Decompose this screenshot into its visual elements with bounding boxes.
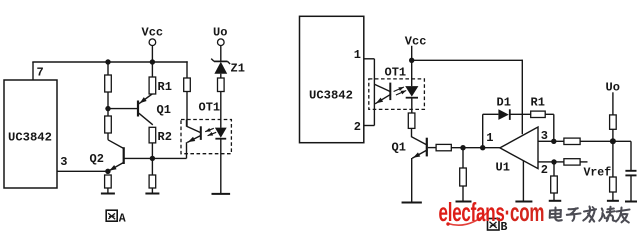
node: feedback branch 2 <box>480 145 485 150</box>
diode D1 <box>498 109 509 120</box>
label D1 <box>497 96 511 110</box>
wire: feedback top left <box>483 113 499 115</box>
capacitor C1 (unlabeled) <box>625 171 636 202</box>
OT1 right phototransistor <box>374 83 391 104</box>
wire: R1 top <box>151 62 153 77</box>
resistor left chain upper (unlabeled) <box>105 75 112 92</box>
wire: D1 to R1 <box>510 113 531 115</box>
ground under capacitor <box>625 201 637 203</box>
wire: to ground <box>612 192 614 201</box>
svg-text:UC3842: UC3842 <box>309 88 353 102</box>
zener Z1 <box>211 59 230 78</box>
wire: pin2 resistor to Vref end <box>580 161 587 163</box>
pin 2 stub <box>364 125 375 127</box>
resistor top-right branch (unlabeled) <box>184 78 191 92</box>
wire: pin2 node to resistor <box>554 161 564 163</box>
wire: vertical pin1-pin2 connector <box>373 59 375 126</box>
pin 3 stub right <box>538 140 554 142</box>
op-amp U1 triangle <box>500 127 538 169</box>
node: Uo junction <box>610 138 616 144</box>
resistor under OT1 LED (unlabeled) <box>408 113 415 128</box>
resistor R1 <box>149 77 156 94</box>
wire: feedback riser <box>482 114 484 147</box>
svg-text:OT1: OT1 <box>385 66 407 80</box>
node: pin3 junction <box>551 139 556 144</box>
ground under R chain <box>145 193 159 195</box>
label U1 <box>496 161 510 175</box>
wire: Vcc drop to op-amp V+ <box>521 60 523 135</box>
wire: rail corner down right branch <box>186 61 188 78</box>
watermark char 烧 <box>599 207 615 221</box>
wire: R2 bottom to node <box>151 143 153 175</box>
label R1 <box>158 80 172 94</box>
resistor under node1 (unlabeled) <box>460 168 467 186</box>
svg-text:7: 7 <box>37 66 44 80</box>
OT1 right LED <box>405 60 418 113</box>
resistor under Q2 emitter (unlabeled) <box>105 175 112 188</box>
svg-text:Q1: Q1 <box>392 141 406 155</box>
Uo terminal right <box>606 81 620 115</box>
ground under Q1 emitter <box>402 202 422 204</box>
wire: left chain middle <box>107 92 109 116</box>
resistor left chain lower (unlabeled) <box>105 116 112 133</box>
resistor under pin2 node (unlabeled) <box>551 176 558 193</box>
op-amp pin 1 label <box>486 131 493 145</box>
node: Vcc junction <box>409 58 414 63</box>
wire: right branch to OT1 <box>186 92 188 127</box>
ground under op-amp <box>515 201 532 203</box>
wire: left chain top <box>107 62 109 75</box>
Uo terminal left <box>213 26 227 62</box>
wire: to ground <box>107 188 109 194</box>
svg-text:Vref: Vref <box>584 167 612 180</box>
transistor Q1 right (faces left) <box>412 137 428 203</box>
pin 3 label <box>60 155 67 169</box>
watermark char 子 <box>567 208 581 221</box>
label Vref <box>584 167 612 180</box>
node: feedback branch 1 <box>460 145 465 150</box>
pin 7 stub wire <box>32 62 34 80</box>
watermark elecfans.com <box>439 197 545 226</box>
wire: OT1 emitter to Q2 base node <box>152 157 186 159</box>
label R2 <box>158 130 172 144</box>
svg-text:2: 2 <box>354 120 361 134</box>
caption 图A <box>106 210 126 225</box>
svg-text:R1: R1 <box>531 96 545 110</box>
IC U-left UC3842 box <box>4 80 57 188</box>
wire: R1 to pin3 drop <box>545 114 554 141</box>
svg-text:A: A <box>119 213 126 226</box>
resistor R1 right <box>531 111 546 117</box>
wire: to ground <box>151 188 153 194</box>
Vcc terminal left <box>142 26 164 63</box>
svg-text:Vcc: Vcc <box>142 26 164 40</box>
pin 3 label right <box>541 129 548 143</box>
ground under Q2 emitter resistor <box>101 193 115 195</box>
OT1 phototransistor <box>187 120 202 159</box>
svg-text:2: 2 <box>541 163 548 177</box>
pin 7 label <box>37 66 44 80</box>
wire: Q1 base <box>108 108 137 110</box>
optocoupler OT1 dashed box right <box>369 79 425 110</box>
resistor under Uo (unlabeled) <box>610 115 617 129</box>
OT1 LED <box>215 120 227 194</box>
resistor under Z1 (unlabeled) <box>218 78 225 92</box>
label Q2 <box>90 152 104 166</box>
wire: Q1 base <box>428 147 436 149</box>
watermark char 电 <box>550 208 562 221</box>
node: Q2 base / OT1 emitter junction <box>150 156 155 161</box>
node: pin3/emitter junction <box>105 169 110 174</box>
wire: base resistor to op-amp <box>451 147 500 149</box>
wire: left chain to Q2 collector <box>107 133 109 140</box>
node: pin2 junction <box>551 159 556 164</box>
label OT1 left <box>199 101 221 115</box>
svg-text:R1: R1 <box>158 80 172 94</box>
ground under pin2 resistor <box>549 200 562 202</box>
svg-text:elecfans·com: elecfans·com <box>439 197 545 226</box>
label R1 right <box>531 96 545 110</box>
svg-text:Z1: Z1 <box>231 62 245 76</box>
wire: Uo resistor to node <box>612 129 614 141</box>
wire: node1 down <box>462 148 464 168</box>
node: rail junction at Vcc <box>150 59 155 64</box>
svg-text:R2: R2 <box>158 130 172 144</box>
svg-text:Q1: Q1 <box>157 103 171 117</box>
wire: to Q1 collector <box>411 128 413 137</box>
OT1 light arrows <box>205 128 216 136</box>
svg-text:3: 3 <box>541 129 548 143</box>
wire: pin3 resistor to Uo node <box>580 140 613 142</box>
IC U-right UC3842 box <box>300 16 364 142</box>
caption 图B <box>488 219 508 235</box>
svg-text:U1: U1 <box>496 161 510 175</box>
transistor Q1 (PNP) <box>138 94 153 125</box>
label OT1 right <box>385 66 407 80</box>
ground under OT1 LED <box>212 193 231 195</box>
label Q1 <box>157 103 171 117</box>
wire: top rail from pin7 to right corner <box>32 61 187 63</box>
wire: pin3 node to resistor <box>554 140 564 142</box>
wire: to ground <box>462 186 464 202</box>
svg-text:Q2: Q2 <box>90 152 104 166</box>
pin 2 stub right <box>538 161 554 163</box>
node: rail junction at left chain <box>105 59 110 64</box>
resistor on pin3 line (unlabeled) <box>564 138 580 144</box>
wire: pin 3 to Q2 emitter node <box>57 170 108 172</box>
ground under Uo resistor <box>607 200 619 202</box>
optocoupler OT1 dashed box <box>181 120 231 154</box>
svg-text:OT1: OT1 <box>199 101 221 115</box>
label Z1 <box>231 62 245 76</box>
svg-text:Vcc: Vcc <box>405 35 427 49</box>
node A: Q1 base junction <box>105 106 110 111</box>
svg-text:1: 1 <box>354 48 361 62</box>
svg-text:UC3842: UC3842 <box>8 131 52 145</box>
wire: Uo node down <box>612 141 614 177</box>
Vcc terminal right <box>405 35 427 61</box>
svg-text:Uo: Uo <box>213 26 227 40</box>
label Q1 right <box>392 141 406 155</box>
wire: Z1 resistor to OT1 LED <box>220 92 222 120</box>
resistor bottom of R chain (unlabeled) <box>149 175 156 188</box>
wire: to ground <box>553 193 555 201</box>
OT1 right light arrows <box>394 87 407 95</box>
svg-text:1: 1 <box>486 131 493 145</box>
pin 1 label <box>354 48 361 62</box>
pin 2 label right <box>541 163 548 177</box>
resistor R2 <box>149 127 156 143</box>
wire: Vcc rail right <box>412 59 523 61</box>
wire: Uo node to capacitor <box>613 141 631 170</box>
pin 2 label <box>354 120 361 134</box>
wire: pin2 node down <box>553 162 555 176</box>
resistor under Uo node (unlabeled) <box>610 177 617 192</box>
pin 1 stub <box>364 58 375 60</box>
watermark char 发 <box>583 207 596 222</box>
resistor on pin2 line (unlabeled) <box>564 159 580 165</box>
transistor Q2 (NPN, faces left) <box>108 140 152 171</box>
resistor Q1 base (unlabeled) <box>436 144 451 150</box>
svg-text:3: 3 <box>60 155 67 169</box>
svg-text:D1: D1 <box>497 96 511 110</box>
ground under node1 resistor <box>456 201 472 203</box>
wire: op-amp V- to ground <box>522 161 524 202</box>
watermark char 友 <box>616 208 630 223</box>
